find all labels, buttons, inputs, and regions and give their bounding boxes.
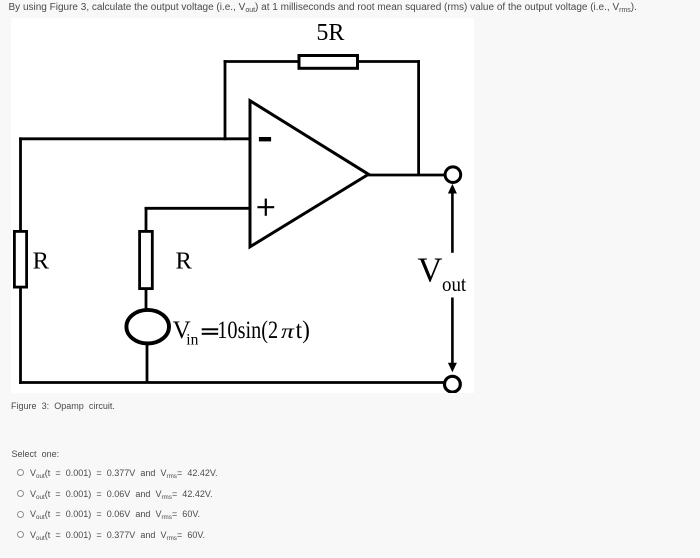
arrow down line — [451, 298, 454, 365]
wire feedback right vertical — [417, 60, 420, 175]
arrowhead up — [448, 184, 457, 194]
svg-text:R: R — [33, 248, 50, 275]
arrow up line — [451, 191, 454, 253]
terminal top circle — [445, 167, 461, 183]
terminal bottom circle — [445, 376, 461, 392]
svg-text:in: in — [186, 332, 198, 349]
wire middle vertical top — [145, 207, 148, 232]
wire feedback top right — [358, 60, 421, 63]
option C radio — [17, 511, 24, 518]
svg-text:5R: 5R — [316, 20, 344, 46]
svg-text:R: R — [176, 248, 193, 275]
svg-text:10sin(2: 10sin(2 — [217, 317, 278, 344]
op-amp minus sign — [259, 137, 271, 141]
wire bottom horizontal — [19, 381, 443, 384]
option C — [30, 509, 200, 519]
wire minus-input horizontal — [19, 137, 250, 140]
resistor R1 (left) — [14, 231, 26, 287]
svg-text:out: out — [442, 272, 466, 296]
source Vin ellipse — [126, 310, 169, 344]
wire plus-input horizontal — [145, 207, 250, 210]
arrowhead down — [448, 363, 457, 373]
svg-text:π: π — [281, 319, 294, 343]
resistor 5R — [299, 56, 358, 69]
option B radio — [17, 490, 24, 497]
op-amp plus sign — [257, 199, 274, 216]
wire output — [367, 174, 444, 177]
wire feedback left vertical — [224, 60, 227, 140]
wire left vertical lower — [19, 287, 22, 384]
option B — [30, 489, 213, 499]
op-amp U1 triangle — [250, 101, 369, 247]
option A — [30, 468, 218, 478]
wire feedback top left — [224, 60, 299, 63]
svg-text:V: V — [418, 251, 443, 289]
resistor R2 (middle) — [140, 231, 153, 288]
option D — [30, 530, 205, 540]
option D radio — [17, 531, 24, 538]
option A radio — [17, 469, 24, 476]
wire middle vertical mid — [145, 289, 148, 310]
wire left vertical upper — [19, 137, 22, 232]
wire middle vertical bottom — [146, 344, 149, 383]
svg-text:t): t) — [296, 317, 310, 344]
